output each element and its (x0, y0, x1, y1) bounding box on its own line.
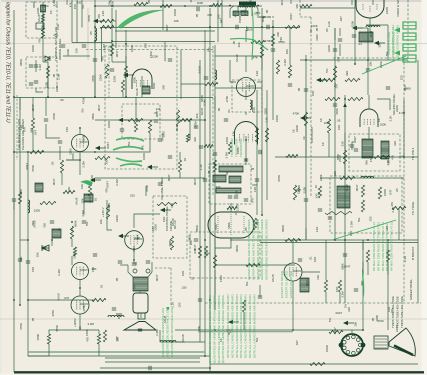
video sound panel dashed v2 (403, 58, 405, 303)
svg-text:220K: 220K (295, 125, 299, 132)
wire bus left (13, 10, 15, 372)
snd coil (52, 229, 61, 238)
svg-text:680K: 680K (187, 235, 191, 242)
resistor R68 (288, 65, 291, 78)
svg-text:5%: 5% (81, 4, 85, 9)
resistor R49 (246, 263, 260, 266)
capacitor C44 (333, 49, 337, 51)
svg-text:RP-10: RP-10 (173, 220, 177, 229)
speaker terminals (133, 269, 150, 273)
capacitor C37 (61, 45, 65, 47)
tube V6 audio out (72, 263, 89, 280)
tube V8 horiz osc (284, 263, 302, 281)
resistor R14 (110, 44, 113, 56)
resistor R39 (198, 246, 201, 258)
svg-text:.01: .01 (358, 42, 362, 46)
wire segment W47 (257, 81, 262, 83)
wire segment W33 (292, 281, 294, 330)
svg-text:330: 330 (77, 0, 82, 4)
svg-text:150: 150 (255, 127, 259, 132)
svg-text:10K: 10K (174, 19, 179, 23)
grease pencil scribble mid-left (113, 138, 144, 166)
svg-text:10K: 10K (378, 43, 382, 48)
svg-text:470K: 470K (277, 175, 281, 182)
wire segment W11 (125, 56, 127, 66)
svg-text:10K: 10K (80, 184, 84, 189)
svg-text:.01: .01 (227, 109, 231, 113)
svg-text:HEATER WIRING AND THIS TUBE IN: HEATER WIRING AND THIS TUBE IN SERIES (251, 219, 255, 280)
pot arrow bias (123, 73, 134, 77)
paper crease line upper (0, 43, 427, 45)
svg-text:NOTE ALL CAPACITORS MARKED ARE: NOTE ALL CAPACITORS MARKED ARE IN MFD (252, 294, 256, 358)
junction J25 (299, 239, 301, 241)
wire segment W60 (367, 262, 369, 275)
svg-text:39K: 39K (345, 71, 349, 76)
capacitor C8 (271, 49, 275, 51)
resistor R4 (100, 19, 114, 22)
svg-text:.047: .047 (389, 189, 393, 195)
svg-text:.0047: .0047 (355, 184, 359, 192)
capacitor C17 (146, 261, 150, 263)
volume dashed box (153, 196, 187, 258)
resistor R41 (97, 334, 100, 344)
svg-text:100K: 100K (236, 147, 240, 154)
resistor R31 (70, 226, 73, 239)
svg-text:1500: 1500 (85, 329, 89, 336)
wire segment W61 (339, 292, 341, 303)
svg-text:.05: .05 (297, 87, 301, 92)
crt socket pins (339, 335, 366, 355)
svg-text:3.3M: 3.3M (115, 179, 119, 186)
wire segment W50 (261, 58, 263, 70)
resistor R32 (60, 160, 63, 173)
sweep panel dashed h (205, 302, 421, 304)
capacitor C20 (26, 261, 30, 263)
wire segment W26 (80, 329, 99, 331)
svg-text:330: 330 (42, 223, 46, 228)
capacitor C47 (120, 129, 124, 131)
svg-text:.0047: .0047 (31, 104, 35, 112)
svg-text:10K: 10K (306, 281, 310, 286)
wire det stub (366, 18, 388, 60)
svg-text:6AU8: 6AU8 (200, 108, 204, 116)
svg-text:3.3M: 3.3M (349, 221, 353, 228)
svg-text:220K: 220K (72, 252, 76, 259)
resistor R54 (124, 66, 127, 78)
svg-text:10K: 10K (80, 198, 84, 203)
svg-text:220K: 220K (98, 74, 102, 81)
capacitor C52 (318, 209, 322, 211)
tube V10 sound det U (356, 0, 384, 18)
junction J52 (344, 98, 346, 100)
resistor R17 (333, 66, 336, 80)
wire segment W78 (375, 156, 381, 158)
resistor R25 (285, 238, 300, 241)
svg-text:.0047: .0047 (335, 311, 343, 315)
svg-text:3.3M: 3.3M (82, 161, 86, 168)
capacitor C1 (34, 65, 38, 67)
junction J2 (111, 5, 113, 7)
svg-text:47K: 47K (53, 33, 58, 37)
svg-text:47K: 47K (207, 13, 212, 17)
svg-text:NOTE ALL CAPACITORS MARKED ARE: NOTE ALL CAPACITORS MARKED ARE IN MFD (239, 294, 243, 358)
resistor R28 (325, 211, 352, 214)
pot arrow takeoff (147, 165, 158, 169)
fm box inner dashed (108, 46, 110, 97)
junction J19 (27, 151, 29, 153)
resistor R56 (18, 192, 21, 204)
svg-text:470K: 470K (31, 165, 35, 172)
speaker dashed edge (155, 268, 171, 307)
resistor R40 (47, 334, 50, 344)
svg-text:100K: 100K (142, 153, 146, 160)
wire segment W73 (111, 8, 113, 18)
wire rail y368 (100, 367, 210, 369)
svg-text:680K: 680K (197, 326, 201, 333)
svg-text:150: 150 (130, 194, 135, 198)
wire rail y178 mid (95, 177, 205, 179)
stamped note block C (208, 294, 225, 363)
wire segment W53 (13, 200, 15, 210)
svg-text:1500: 1500 (219, 275, 223, 282)
svg-text:+140 V: +140 V (101, 207, 105, 217)
svg-text:NOTE ALL CAPACITORS MARKED ARE: NOTE ALL CAPACITORS MARKED ARE IN MFD (235, 294, 239, 358)
svg-text:150: 150 (178, 302, 182, 307)
wire x181 (180, 50, 182, 99)
right scan edge (422, 0, 427, 375)
wire if bus a (199, 60, 201, 330)
svg-text:100K: 100K (81, 134, 85, 141)
svg-text:10K: 10K (335, 287, 339, 292)
wire agc col (94, 0, 96, 97)
wire rail y342 (160, 341, 205, 343)
wire segment W65 (243, 312, 245, 330)
svg-text:470K: 470K (87, 15, 91, 22)
resistor R35 (106, 205, 109, 219)
svg-text:.05: .05 (52, 73, 56, 78)
svg-text:3.3M: 3.3M (81, 210, 85, 217)
pot arrow trap (118, 118, 129, 122)
pot arrow det (374, 41, 385, 45)
junction J3 (184, 5, 186, 7)
svg-text:.047: .047 (353, 136, 357, 142)
stamped note transistor (230, 138, 243, 157)
resistor R36 (170, 236, 173, 250)
capacitor C14 (354, 149, 358, 151)
svg-text:39K: 39K (19, 257, 23, 262)
panel boundary dashed x311 (310, 17, 312, 196)
svg-text:.0047: .0047 (343, 264, 351, 268)
tube V3 1st if dome (235, 122, 258, 145)
svg-text:100K: 100K (225, 137, 229, 144)
svg-text:39K: 39K (195, 113, 199, 118)
capacitor C19 (50, 221, 54, 223)
svg-text:470K: 470K (265, 39, 272, 43)
wire segment W24 (49, 314, 80, 334)
svg-text:HEATER WIRING AND THIS TUBE IN: HEATER WIRING AND THIS TUBE IN SERIES (260, 219, 264, 280)
svg-text:330: 330 (216, 185, 221, 189)
stamped note block G (391, 24, 399, 60)
junction J24 (261, 214, 263, 216)
svg-text:.0047: .0047 (280, 0, 284, 6)
tube V5 grids (218, 214, 244, 236)
capacitor C28 (112, 308, 116, 310)
svg-text:2.2K: 2.2K (264, 117, 268, 123)
svg-text:100K: 100K (383, 189, 387, 196)
wire segment W62 (159, 330, 161, 342)
wire segment W8 (79, 160, 81, 175)
junction J37 (354, 63, 356, 65)
power transformer winding (238, 6, 255, 7)
ground lug 2 (226, 330, 232, 334)
junction J13 (111, 40, 113, 42)
svg-text:6AU8: 6AU8 (37, 14, 41, 22)
wire top rail (95, 5, 262, 7)
svg-text:.05: .05 (395, 188, 399, 192)
resistor R65 (105, 64, 108, 78)
svg-text:5%: 5% (325, 68, 329, 73)
svg-text:.0047: .0047 (193, 178, 197, 186)
svg-text:6AU8: 6AU8 (181, 334, 185, 342)
wire v326 (325, 240, 327, 303)
stamped note block F (372, 222, 394, 271)
resistor R1 (41, 14, 44, 22)
capacitor C23 (258, 296, 262, 298)
svg-text:100K: 100K (311, 24, 318, 28)
junction J15 (13, 96, 15, 98)
wire rail y56 (215, 55, 262, 57)
svg-text:39K: 39K (365, 160, 369, 165)
svg-text:3.3M: 3.3M (57, 73, 61, 80)
wire segment W48 (230, 60, 236, 82)
junction J16 (94, 96, 96, 98)
svg-text:6AU8: 6AU8 (271, 274, 275, 282)
ground lug 1 (116, 314, 122, 318)
junction J14 (125, 43, 127, 45)
svg-text:100K: 100K (107, 121, 111, 128)
svg-text:150: 150 (116, 336, 120, 341)
fm trap dashed box (105, 46, 177, 169)
if transformer T3 sec a (213, 175, 226, 182)
svg-text:NOTE ALL CAPACITORS MARKED ARE: NOTE ALL CAPACITORS MARKED ARE IN MFD (244, 294, 248, 358)
green arrows (394, 28, 400, 56)
junction J11 (272, 26, 274, 28)
wire segment W85 (403, 99, 405, 157)
svg-text:680K: 680K (152, 82, 156, 89)
svg-text:330: 330 (315, 193, 319, 198)
svg-text:330: 330 (393, 141, 397, 146)
svg-text:.05: .05 (244, 227, 248, 231)
svg-text:.05: .05 (217, 107, 221, 112)
resistor R51 (265, 128, 268, 142)
capacitor C4 (236, 25, 238, 29)
svg-text:.0047: .0047 (167, 174, 171, 182)
resistor R16 (276, 60, 279, 74)
svg-text:330: 330 (341, 141, 345, 146)
svg-text:5%: 5% (390, 308, 394, 313)
svg-text:680K: 680K (261, 15, 265, 22)
wire segment W39 (368, 127, 370, 139)
resistor R75 (318, 186, 321, 198)
junction J39 (79, 159, 81, 161)
tube V7 rectifier (71, 296, 89, 314)
svg-text:3.3M: 3.3M (203, 99, 207, 106)
wire segment W80 (47, 78, 49, 88)
svg-text:220K: 220K (327, 45, 331, 52)
capacitor C29 (18, 259, 22, 261)
grease pencil sweep (230, 38, 268, 50)
junction J1 (94, 5, 96, 7)
svg-text:QUANTITIES OF AIRBORNE THROUGH: QUANTITIES OF AIRBORNE THROUGH CONTROL (208, 294, 212, 363)
svg-text:470K: 470K (82, 305, 86, 312)
tube V13 video amp (237, 78, 256, 97)
resistor R8 (251, 40, 265, 43)
svg-text:220K: 220K (303, 187, 307, 194)
wire segment W52 (20, 239, 28, 241)
wire rail y31 (115, 30, 215, 32)
wire rail y41 left (72, 42, 112, 44)
wire x222 top (221, 0, 223, 28)
svg-text:100K: 100K (133, 77, 137, 84)
svg-text:.01: .01 (190, 276, 194, 280)
wire segment W10 (141, 76, 143, 97)
svg-text:.01: .01 (100, 284, 104, 288)
coil L1 agc (95, 28, 97, 41)
wire segment W29 (120, 264, 128, 266)
capacitor C35 (12, 199, 16, 201)
stamped note block A (247, 219, 269, 280)
wire x116 (115, 10, 117, 48)
resistor R64 (361, 200, 364, 212)
crt socket tube (341, 334, 363, 356)
svg-text:6AU8: 6AU8 (57, 293, 61, 301)
resistor R50 (255, 128, 258, 142)
resistor R72 (178, 160, 181, 172)
resistor R3 (46, 66, 49, 78)
svg-text:VIDEO B SOUND: VIDEO B SOUND (391, 32, 395, 55)
svg-text:3.3M: 3.3M (283, 59, 287, 66)
svg-text:10K: 10K (311, 91, 315, 96)
capacitor C30 (42, 247, 46, 249)
capacitor C56 (138, 329, 142, 331)
svg-text:12K: 12K (101, 11, 105, 16)
svg-text:12K: 12K (253, 187, 257, 192)
svg-text:10K: 10K (313, 257, 317, 262)
svg-text:.0047: .0047 (165, 24, 169, 32)
svg-text:.05: .05 (325, 28, 329, 32)
speaker can (133, 293, 148, 313)
if transformer T3 sec b (229, 176, 241, 183)
svg-text:.0047: .0047 (214, 223, 218, 231)
svg-text:10K: 10K (108, 0, 112, 5)
capacitor C61 (154, 120, 158, 122)
resistor R46 (374, 155, 390, 158)
svg-text:12K: 12K (316, 275, 320, 280)
svg-text:100K: 100K (275, 115, 279, 122)
wire sound col (305, 55, 307, 240)
wire segment W18 (214, 203, 216, 212)
wire segment W6 (61, 173, 63, 185)
resistor R29 (63, 190, 75, 193)
svg-text:2.2K: 2.2K (389, 115, 393, 121)
power leads (230, 6, 258, 19)
ratio det dashed box (330, 176, 402, 233)
resistor R70 (134, 120, 137, 132)
resistor R47 (329, 330, 343, 333)
capacitor C53 (298, 259, 302, 261)
wire segment W41 (344, 133, 346, 150)
pencil line (87, 8, 89, 60)
junction J54 (245, 139, 247, 141)
resistor R52 (180, 118, 192, 121)
left note dashed (16, 95, 18, 160)
det coil (84, 194, 93, 202)
svg-text:5%: 5% (309, 28, 313, 33)
junction J44 (344, 156, 346, 158)
junction J42 (214, 329, 216, 331)
if transformer T3 top bar (219, 166, 243, 172)
svg-text:680K: 680K (168, 240, 172, 247)
wire segment W57 (89, 196, 91, 203)
svg-text:10K: 10K (337, 125, 341, 130)
grease pencil check top (117, 10, 165, 29)
capacitor C12 (386, 87, 390, 89)
junction J6 (243, 5, 245, 7)
capacitor C7 (194, 126, 198, 128)
svg-text:100K: 100K (380, 123, 387, 127)
wire rail y88 (215, 87, 262, 89)
svg-text:NOTE ALL CAPACITORS MARKED ARE: NOTE ALL CAPACITORS MARKED ARE IN MFD (230, 294, 234, 358)
wire v60 (59, 146, 61, 160)
svg-text:10K: 10K (349, 231, 353, 236)
capacitor C6 (158, 139, 162, 141)
wire segment W51 (214, 96, 216, 110)
capacitor C60 (352, 35, 356, 37)
wire x218 top (217, 0, 219, 42)
svg-text:.05: .05 (207, 170, 211, 174)
svg-text:100K: 100K (385, 7, 389, 14)
svg-text:3.3M: 3.3M (88, 322, 95, 326)
svg-text:1K: 1K (314, 185, 318, 189)
crt neck grid (374, 336, 388, 349)
svg-text:.05: .05 (60, 98, 64, 102)
svg-text:.047: .047 (251, 197, 255, 203)
agc keyer dashed box (190, 232, 260, 278)
tuner top coil (41, 5, 46, 12)
capacitor C22 (328, 217, 332, 219)
svg-text:330: 330 (170, 203, 174, 208)
capacitor C57 (204, 77, 208, 79)
svg-text:330: 330 (143, 43, 147, 48)
discriminator dashed box (349, 134, 400, 171)
svg-text:INDICATES COIL RESISTANCE LOW: INDICATES COIL RESISTANCE LOW (161, 308, 165, 357)
tuner dashed box top (26, 2, 57, 38)
svg-text:150: 150 (182, 285, 187, 289)
svg-text:47K: 47K (37, 38, 41, 43)
wire segment W15 (245, 136, 247, 165)
wire sync col (334, 28, 336, 240)
junction J50 (27, 239, 29, 241)
svg-text:.0047: .0047 (255, 218, 259, 226)
svg-text:HEATER WIRING AND THIS TUBE IN: HEATER WIRING AND THIS TUBE IN SERIES (265, 219, 269, 280)
capacitor C18 (93, 254, 97, 256)
svg-text:.0047: .0047 (97, 104, 101, 112)
svg-text:220K: 220K (351, 20, 355, 27)
svg-text:5%: 5% (385, 51, 389, 56)
svg-text:.01: .01 (183, 157, 187, 162)
svg-text:3.3M: 3.3M (194, 121, 198, 128)
svg-text:.01: .01 (57, 227, 61, 232)
